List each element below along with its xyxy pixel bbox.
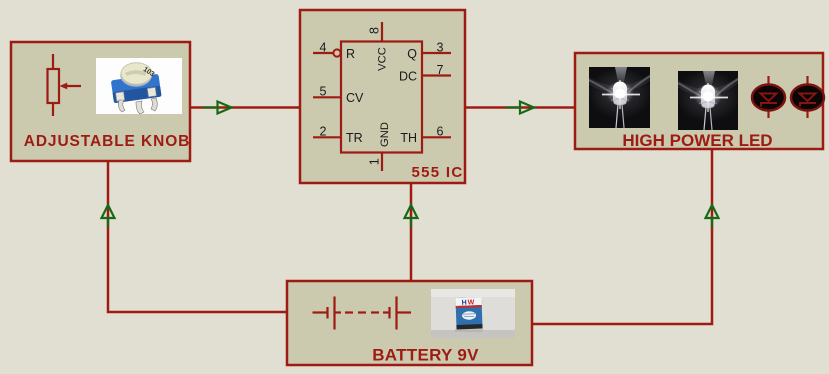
svg-text:CV: CV — [346, 91, 364, 105]
svg-text:5: 5 — [320, 85, 327, 99]
wire knob bottom to battery left — [108, 161, 287, 312]
trimmer potentiometer photo — [96, 58, 182, 114]
svg-text:1: 1 — [368, 158, 382, 165]
svg-text:ADJUSTABLE KNOB: ADJUSTABLE KNOB — [24, 133, 191, 150]
block HIGH POWER LED — [575, 53, 823, 149]
LED photo 1 — [588, 67, 652, 128]
pin 2 (TR) — [313, 125, 363, 146]
battery BT1 symbol — [313, 297, 412, 330]
block ADJUSTABLE KNOB — [11, 42, 190, 161]
wire LED block bottom to battery right — [532, 149, 712, 324]
pin 5 (CV) — [313, 85, 364, 106]
svg-text:6: 6 — [437, 125, 444, 139]
svg-text:HIGH POWER LED: HIGH POWER LED — [622, 131, 772, 150]
svg-text:W: W — [468, 299, 475, 306]
signal arrow 555 to LED — [506, 102, 534, 114]
LED photo 2 — [676, 70, 740, 130]
signal arrow knob to 555 — [203, 102, 232, 114]
supply arrow on 555-battery wire — [405, 205, 418, 227]
wire 555 output to LED block — [465, 106, 575, 109]
pin 6 (TH) — [400, 125, 451, 146]
svg-text:DC: DC — [399, 70, 417, 84]
svg-text:VCC: VCC — [377, 47, 389, 71]
svg-text:TH: TH — [400, 131, 417, 145]
pin 7 (DC) — [399, 63, 451, 84]
pin 3 (Q) — [407, 41, 451, 62]
wire 555 bottom to battery top — [410, 183, 413, 281]
svg-text:H: H — [462, 300, 467, 307]
pin 1 (GND) — [368, 122, 392, 171]
svg-text:3: 3 — [437, 41, 444, 55]
svg-text:4: 4 — [320, 41, 327, 55]
IC U1 555 body — [341, 42, 422, 153]
svg-text:555 IC: 555 IC — [412, 164, 464, 181]
supply arrow on knob-battery wire — [102, 205, 115, 227]
svg-text:GND: GND — [379, 122, 391, 147]
svg-text:BATTERY 9V: BATTERY 9V — [372, 346, 479, 365]
LED D2 symbol — [791, 76, 824, 118]
svg-text:8: 8 — [368, 27, 382, 34]
svg-text:TR: TR — [346, 131, 363, 145]
svg-text:Q: Q — [407, 47, 417, 61]
LED D1 symbol — [752, 76, 785, 118]
svg-text:2: 2 — [320, 125, 327, 139]
battery 9V photo — [431, 289, 515, 338]
svg-text:R: R — [346, 47, 355, 61]
potentiometer RV1 symbol — [48, 54, 82, 116]
supply arrow on LED-battery wire — [706, 205, 719, 227]
pin 4 (R) with bubble — [313, 41, 355, 62]
pin 8 (VCC) — [368, 22, 389, 71]
svg-text:7: 7 — [437, 63, 444, 77]
block 555 IC — [300, 10, 465, 183]
wire knob output to 555 — [190, 106, 300, 109]
block BATTERY 9V — [287, 281, 532, 365]
